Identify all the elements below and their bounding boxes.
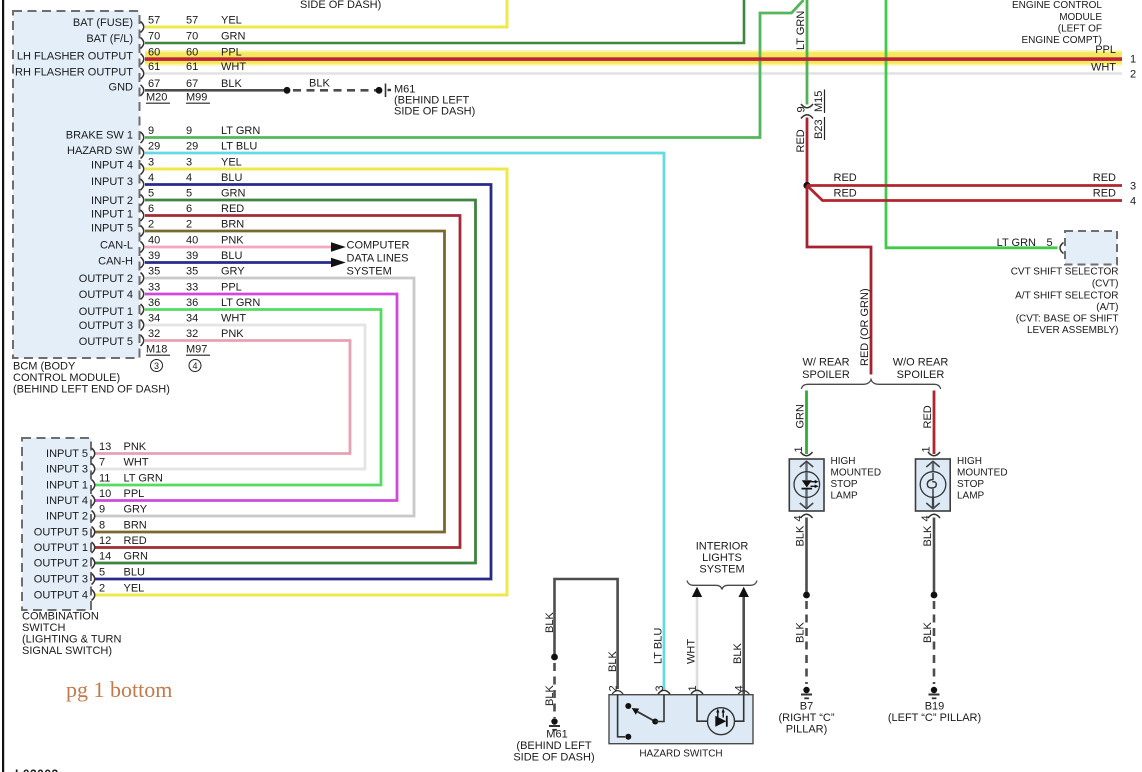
combination switch caption — [22, 611, 121, 658]
svg-text:3: 3 — [1130, 181, 1136, 193]
svg-text:RED: RED — [221, 203, 244, 215]
wire RED B23 vertical — [806, 118, 809, 186]
junction on BLK — [551, 654, 558, 661]
svg-text:SIDE OF DASH): SIDE OF DASH) — [394, 106, 475, 118]
svg-text:(LEFT OF: (LEFT OF — [1058, 24, 1102, 35]
svg-text:ENGINE COMPT): ENGINE COMPT) — [1021, 35, 1102, 46]
svg-text:WHT: WHT — [124, 457, 149, 469]
svg-text:MOUNTED: MOUNTED — [957, 468, 1008, 479]
combination switch pin name labels — [34, 448, 88, 602]
svg-text:4: 4 — [192, 361, 197, 371]
svg-text:RED: RED — [834, 172, 857, 184]
svg-text:BAT (F/L): BAT (F/L) — [86, 33, 133, 45]
svg-text:SIDE OF DASH): SIDE OF DASH) — [513, 752, 594, 764]
svg-text:36: 36 — [186, 297, 198, 309]
hazard internal pin2 stub — [618, 695, 625, 737]
hazard internal switch arm — [638, 712, 656, 722]
svg-text:CVT SHIFT SELECTOR: CVT SHIFT SELECTOR — [1011, 267, 1119, 278]
svg-text:BLK: BLK — [544, 685, 556, 706]
BCM pin arcs — [141, 22, 144, 347]
svg-text:(BEHIND LEFT: (BEHIND LEFT — [516, 740, 591, 752]
wire PPL pin 60 highlighted band (LH flasher output) — [145, 50, 1122, 65]
svg-text:LT GRN: LT GRN — [124, 473, 163, 485]
svg-text:9: 9 — [186, 125, 192, 137]
combination switch wire number and colour labels — [99, 441, 163, 595]
svg-text:BLK: BLK — [732, 643, 744, 664]
svg-text:LT BLU: LT BLU — [653, 628, 665, 664]
wire WHT hazard pin 1 to interior lights — [696, 596, 699, 694]
BCM wire number and colour labels — [148, 15, 260, 341]
svg-text:2: 2 — [1130, 69, 1136, 81]
COMBINATION SWITCH connector box — [22, 438, 91, 610]
svg-text:B19: B19 — [925, 701, 945, 713]
node junction RED — [803, 182, 810, 189]
svg-text:CAN-L: CAN-L — [100, 240, 133, 252]
HAZARD SWITCH box — [609, 695, 753, 744]
svg-text:RED: RED — [922, 405, 934, 428]
wire RED to ECM pin 4 — [807, 186, 1122, 201]
hazard internal contact dot lower — [625, 734, 631, 740]
high mounted stop lamp (bulb) box — [916, 459, 951, 511]
svg-text:6: 6 — [186, 203, 192, 215]
BCM caption — [13, 361, 170, 396]
lamp U1 LED emission arrows — [811, 482, 816, 487]
wire BLK GND dashed — [293, 89, 379, 92]
svg-text:BLK: BLK — [544, 612, 556, 633]
lamp U2 arrow bottom — [926, 503, 939, 509]
lamp U1 arrow top — [800, 461, 813, 467]
svg-text:STOP: STOP — [957, 479, 984, 490]
svg-text:INPUT 1: INPUT 1 — [91, 209, 133, 221]
svg-text:M97: M97 — [186, 344, 207, 356]
svg-text:LEVER ASSEMBLY): LEVER ASSEMBLY) — [1027, 325, 1119, 336]
svg-text:COMPUTER: COMPUTER — [347, 240, 410, 252]
svg-text:(RIGHT “C”: (RIGHT “C” — [778, 712, 834, 724]
svg-text:SWITCH: SWITCH — [22, 622, 65, 634]
svg-text:RED: RED — [795, 129, 807, 152]
svg-text:40: 40 — [148, 235, 160, 247]
engine control module caption — [1012, 0, 1102, 46]
svg-text:40: 40 — [186, 235, 198, 247]
svg-text:8: 8 — [99, 520, 105, 532]
svg-text:M18: M18 — [146, 344, 167, 356]
wire LT GRN pin 9 (brake sw 1) — [145, 0, 804, 138]
splice M61 caption (bottom) — [513, 729, 594, 764]
svg-text:5: 5 — [186, 188, 192, 200]
svg-text:GRY: GRY — [124, 504, 148, 516]
hazard LED triangle — [715, 716, 726, 727]
svg-text:33: 33 — [148, 282, 160, 294]
svg-text:OUTPUT 3: OUTPUT 3 — [34, 574, 88, 586]
svg-text:MOUNTED: MOUNTED — [831, 468, 882, 479]
high mounted stop lamp (LED) box — [789, 459, 824, 511]
wire WHT pin 34 / pin 7 — [94, 325, 365, 469]
arrow to computer data lines (CAN-H) — [331, 258, 346, 268]
arrow interior lights (BLK) — [739, 587, 749, 597]
lamp U2 caption — [957, 456, 1008, 502]
svg-text:YEL: YEL — [221, 157, 242, 169]
svg-text:CONTROL MODULE): CONTROL MODULE) — [13, 372, 120, 384]
svg-text:INPUT 3: INPUT 3 — [91, 176, 133, 188]
connector arc CVT pin 5 — [1060, 243, 1064, 254]
svg-text:BLK: BLK — [309, 78, 330, 90]
lamp U1 LED bar — [802, 488, 813, 490]
svg-text:(LIGHTING & TURN: (LIGHTING & TURN — [22, 634, 121, 646]
svg-text:HAZARD SW: HAZARD SW — [67, 145, 134, 157]
svg-text:GND: GND — [109, 81, 134, 93]
svg-text:3: 3 — [654, 685, 666, 691]
computer data lines system caption — [347, 240, 410, 278]
svg-text:LH FLASHER OUTPUT: LH FLASHER OUTPUT — [17, 51, 133, 63]
arrow interior lights (WHT) — [692, 587, 702, 597]
hazard switch pin 1 connector arc — [691, 690, 703, 694]
wire WHT pin 61 (RH flasher output) — [145, 72, 1122, 75]
wire PNK pin 40 (CAN-L) — [145, 246, 332, 249]
junction at M61 — [376, 87, 383, 94]
wire BLU pin 39 (CAN-H) — [145, 261, 332, 264]
brace interior lights system — [687, 581, 757, 590]
svg-text:SYSTEM: SYSTEM — [699, 564, 744, 576]
svg-text:OUTPUT 1: OUTPUT 1 — [79, 306, 133, 318]
brace split W/ and W/O rear spoiler — [801, 380, 940, 390]
wire RED to ECM pin 3 — [807, 184, 1122, 187]
svg-text:GRN: GRN — [221, 31, 246, 43]
svg-text:36: 36 — [148, 297, 160, 309]
svg-text:RED: RED — [834, 188, 857, 200]
svg-text:60: 60 — [148, 47, 160, 59]
hazard LED cathode bar — [726, 716, 728, 727]
svg-text:HIGH: HIGH — [957, 456, 982, 467]
svg-text:29: 29 — [186, 141, 198, 153]
junction on GND wire — [284, 87, 291, 94]
connector labels M20 M99 — [146, 92, 207, 104]
svg-text:RED (OR GRN): RED (OR GRN) — [859, 288, 871, 366]
svg-text:BRAKE SW 1: BRAKE SW 1 — [66, 130, 133, 142]
svg-text:9: 9 — [796, 106, 808, 112]
wire BLK dashed to B19 — [933, 601, 936, 684]
wire BLK dashed to ground M61 — [553, 663, 556, 718]
wire GRN pin 70 (BAT F/L) — [145, 0, 744, 43]
svg-text:LAMP: LAMP — [957, 491, 985, 502]
svg-text:2: 2 — [608, 685, 620, 691]
svg-text:34: 34 — [148, 313, 160, 325]
svg-text:INPUT 5: INPUT 5 — [46, 448, 88, 460]
svg-text:OUTPUT 5: OUTPUT 5 — [79, 336, 133, 348]
circled note 3 — [151, 360, 163, 372]
svg-text:OUTPUT 5: OUTPUT 5 — [34, 527, 88, 539]
svg-text:BLK: BLK — [922, 622, 934, 643]
svg-text:SPOILER: SPOILER — [802, 369, 850, 381]
wire GRN pin 5 / pin 14 — [94, 200, 476, 563]
svg-text:BLK: BLK — [221, 78, 242, 90]
svg-text:9: 9 — [148, 125, 154, 137]
lamp U1 internal vertical — [805, 461, 807, 509]
lamp U2 arrow top — [926, 461, 939, 467]
junction below left lamp — [803, 592, 810, 599]
svg-text:COMBINATION: COMBINATION — [22, 611, 99, 623]
svg-text:LT GRN: LT GRN — [795, 11, 807, 50]
connector M61 terminal mark — [385, 84, 387, 98]
wire RED w/o rear spoiler — [933, 391, 936, 455]
svg-text:1: 1 — [1130, 54, 1136, 66]
svg-text:SIDE OF DASH): SIDE OF DASH) — [300, 0, 381, 11]
BCM (Body Control Module) connector box — [13, 11, 140, 358]
svg-text:OUTPUT 4: OUTPUT 4 — [79, 289, 133, 301]
svg-text:L02002: L02002 — [15, 767, 59, 772]
svg-text:33: 33 — [186, 282, 198, 294]
wire YEL pin 57 (BAT FUSE) — [145, 0, 507, 27]
svg-text:1: 1 — [921, 446, 933, 452]
wire BLK below right lamp — [933, 518, 936, 596]
circled note 4 — [189, 360, 201, 372]
svg-text:STOP: STOP — [831, 479, 858, 490]
wire BLK hazard pin 2 loop — [555, 579, 618, 689]
svg-text:PPL: PPL — [124, 488, 145, 500]
svg-text:GRN: GRN — [124, 551, 149, 563]
svg-text:M20: M20 — [146, 92, 167, 104]
svg-text:OUTPUT 2: OUTPUT 2 — [34, 558, 88, 570]
svg-text:OUTPUT 4: OUTPUT 4 — [34, 590, 88, 602]
switch arm arrowhead — [632, 708, 640, 715]
BCM pin name labels — [15, 17, 134, 348]
svg-text:4: 4 — [793, 515, 805, 521]
svg-text:M99: M99 — [186, 92, 207, 104]
ground M61 — [549, 718, 560, 730]
svg-text:5: 5 — [1047, 237, 1053, 249]
svg-text:35: 35 — [148, 266, 160, 278]
svg-text:INPUT 3: INPUT 3 — [46, 464, 88, 476]
lamp U1 internal vertical through circle — [805, 472, 807, 497]
svg-text:61: 61 — [186, 61, 198, 73]
wire RED (OR GRN) down to spoiler split — [807, 186, 871, 375]
svg-text:57: 57 — [148, 15, 160, 27]
svg-text:PNK: PNK — [221, 235, 244, 247]
connector B23 male half — [801, 115, 813, 119]
wire BLK dashed to B7 — [805, 601, 808, 684]
svg-text:4: 4 — [734, 685, 746, 691]
svg-text:57: 57 — [186, 15, 198, 27]
svg-text:5: 5 — [99, 567, 105, 579]
wire GRN w/ rear spoiler — [805, 391, 808, 455]
svg-text:GRN: GRN — [221, 188, 246, 200]
svg-text:GRN: GRN — [795, 404, 807, 429]
wire LT GRN from top to connector M15 pin 9 — [806, 0, 809, 105]
svg-text:OUTPUT 3: OUTPUT 3 — [79, 320, 133, 332]
svg-text:12: 12 — [99, 535, 111, 547]
svg-text:4: 4 — [148, 172, 154, 184]
svg-text:INPUT 2: INPUT 2 — [46, 511, 88, 523]
svg-text:32: 32 — [186, 328, 198, 340]
svg-text:OUTPUT 2: OUTPUT 2 — [79, 273, 133, 285]
page border line left — [2, 0, 4, 772]
svg-text:INPUT 4: INPUT 4 — [46, 495, 88, 507]
CVT SHIFT SELECTOR connector box — [1065, 231, 1117, 265]
svg-text:CAN-H: CAN-H — [98, 256, 133, 268]
svg-text:70: 70 — [148, 31, 160, 43]
svg-text:2: 2 — [99, 583, 105, 595]
hazard switch pin 4 connector arc — [738, 691, 749, 694]
svg-text:RED: RED — [1093, 172, 1116, 184]
svg-text:(CVT): (CVT) — [1092, 279, 1119, 290]
hazard internal pin1 stub to LED — [697, 695, 708, 721]
hazard switch pin 2 connector arc — [612, 691, 623, 694]
wire BLU pin 4 / pin 5 — [94, 185, 491, 580]
svg-text:60: 60 — [186, 47, 198, 59]
svg-text:70: 70 — [186, 31, 198, 43]
svg-text:SIGNAL SWITCH): SIGNAL SWITCH) — [22, 645, 112, 657]
svg-text:B23: B23 — [813, 119, 825, 139]
svg-text:6: 6 — [148, 203, 154, 215]
svg-text:LT BLU: LT BLU — [221, 141, 257, 153]
wire LT GRN long vertical to CVT shift selector — [886, 0, 1058, 248]
svg-text:(BEHIND LEFT END OF DASH): (BEHIND LEFT END OF DASH) — [13, 384, 170, 396]
svg-text:39: 39 — [186, 250, 198, 262]
hazard internal pin3 stub — [655, 695, 664, 722]
svg-text:PILLAR): PILLAR) — [786, 724, 828, 736]
arrow to computer data lines (CAN-L) — [331, 242, 346, 252]
svg-text:BLU: BLU — [124, 567, 145, 579]
svg-text:pg 1 bottom: pg 1 bottom — [66, 677, 172, 702]
svg-text:PPL: PPL — [221, 282, 242, 294]
svg-text:BLU: BLU — [221, 250, 242, 262]
wire BLK below left lamp — [805, 518, 808, 596]
svg-text:2: 2 — [186, 219, 192, 231]
svg-text:M61: M61 — [546, 729, 567, 741]
wire BRN pin 2 / pin 8 — [94, 231, 445, 532]
lamp U1 arrow bottom — [800, 503, 813, 509]
svg-text:61: 61 — [148, 61, 160, 73]
svg-text:B7: B7 — [800, 701, 813, 713]
ground B7 — [801, 687, 812, 699]
svg-text:PNK: PNK — [221, 328, 244, 340]
hazard switch pin 3 connector arc — [658, 690, 670, 694]
lamp U1 caption — [831, 456, 882, 502]
ground B19 caption — [888, 701, 981, 725]
svg-text:YEL: YEL — [221, 15, 242, 27]
svg-text:INPUT 4: INPUT 4 — [91, 160, 133, 172]
svg-text:HIGH: HIGH — [831, 456, 856, 467]
svg-text:11: 11 — [99, 473, 110, 485]
wire LT GRN pin 36 / pin 11 — [94, 310, 381, 486]
wire LT BLU pin 29 (hazard sw) — [145, 153, 664, 689]
svg-text:SYSTEM: SYSTEM — [347, 266, 392, 278]
hazard internal arm pivot dot — [652, 719, 658, 725]
svg-text:WHT: WHT — [221, 313, 246, 325]
lamp U1 pin 4 connector arc — [801, 514, 813, 518]
svg-text:YEL: YEL — [124, 583, 145, 595]
svg-text:BLU: BLU — [221, 172, 242, 184]
svg-text:3: 3 — [148, 157, 154, 169]
svg-text:34: 34 — [186, 313, 198, 325]
svg-text:BCM (BODY: BCM (BODY — [13, 361, 76, 373]
svg-text:RH FLASHER OUTPUT: RH FLASHER OUTPUT — [15, 66, 133, 78]
svg-text:BLK: BLK — [795, 622, 807, 643]
combination switch pin arcs — [92, 448, 95, 601]
svg-text:7: 7 — [99, 457, 105, 469]
svg-text:W/ REAR: W/ REAR — [802, 357, 849, 369]
svg-text:4: 4 — [920, 515, 932, 521]
svg-text:RED: RED — [1093, 188, 1116, 200]
svg-text:4: 4 — [1130, 196, 1136, 208]
CVT shift selector caption — [1011, 267, 1119, 337]
svg-text:1: 1 — [793, 446, 805, 452]
svg-text:INPUT 1: INPUT 1 — [46, 480, 88, 492]
svg-text:A/T SHIFT SELECTOR: A/T SHIFT SELECTOR — [1015, 291, 1118, 302]
wire PNK pin 32 / pin 13 — [94, 341, 350, 454]
connector labels M18 M97 — [146, 344, 207, 356]
lamp U2 bulb circle — [920, 472, 946, 498]
svg-text:WHT: WHT — [1091, 62, 1116, 74]
svg-text:RED: RED — [124, 535, 147, 547]
lamp U2 bulb filament loop — [927, 473, 936, 507]
svg-text:OUTPUT 1: OUTPUT 1 — [34, 542, 88, 554]
wire YEL pin 3 / pin 2 — [94, 169, 507, 595]
svg-text:3: 3 — [186, 157, 192, 169]
svg-text:BLK: BLK — [922, 525, 934, 546]
wire GRY pin 35 / pin 9 — [94, 278, 414, 516]
svg-text:BLK: BLK — [795, 525, 807, 546]
wire PPL pin 60 core — [145, 57, 1122, 61]
svg-text:2: 2 — [148, 219, 154, 231]
svg-text:LT GRN: LT GRN — [221, 125, 260, 137]
hazard LED emission arrows — [718, 712, 723, 718]
junction below right lamp — [931, 592, 938, 599]
svg-text:29: 29 — [148, 141, 160, 153]
svg-text:INPUT 2: INPUT 2 — [91, 195, 133, 207]
svg-text:PPL: PPL — [221, 47, 242, 59]
svg-text:HAZARD SWITCH: HAZARD SWITCH — [639, 749, 722, 760]
hazard LED circle — [708, 708, 735, 735]
svg-text:39: 39 — [148, 250, 160, 262]
svg-text:14: 14 — [99, 551, 111, 563]
svg-text:SPOILER: SPOILER — [897, 369, 945, 381]
svg-text:1: 1 — [687, 685, 699, 691]
svg-text:BAT (FUSE): BAT (FUSE) — [73, 17, 133, 29]
interior lights system caption — [696, 541, 749, 576]
svg-text:GRY: GRY — [221, 266, 245, 278]
svg-text:5: 5 — [148, 188, 154, 200]
svg-text:(LEFT “C” PILLAR): (LEFT “C” PILLAR) — [888, 712, 981, 724]
svg-text:10: 10 — [99, 488, 111, 500]
ground B19 — [929, 687, 940, 699]
svg-text:LT GRN: LT GRN — [997, 237, 1036, 249]
svg-text:INPUT 5: INPUT 5 — [91, 223, 133, 235]
svg-text:WHT: WHT — [221, 61, 246, 73]
wire BLK hazard pin 4 to interior lights — [742, 596, 745, 694]
svg-text:3: 3 — [154, 361, 159, 371]
svg-text:WHT: WHT — [686, 639, 698, 664]
svg-text:PPL: PPL — [1095, 44, 1116, 56]
svg-text:67: 67 — [186, 78, 198, 90]
svg-text:35: 35 — [186, 266, 198, 278]
svg-text:(A/T): (A/T) — [1096, 302, 1118, 313]
splice M61 caption (top) — [394, 84, 475, 118]
wire RED pin 6 / pin 12 — [94, 216, 460, 548]
hazard internal contact dot upper — [625, 703, 631, 709]
svg-text:INTERIOR: INTERIOR — [696, 541, 749, 553]
svg-text:LAMP: LAMP — [831, 491, 859, 502]
svg-text:W/O REAR: W/O REAR — [893, 357, 949, 369]
svg-text:LIGHTS: LIGHTS — [702, 552, 742, 564]
svg-text:9: 9 — [99, 504, 105, 516]
svg-text:BRN: BRN — [124, 520, 147, 532]
svg-text:BLK: BLK — [607, 651, 619, 672]
lamp U1 LED circle — [794, 472, 820, 498]
svg-text:PNK: PNK — [124, 441, 147, 453]
lamp U1 pin 1 connector arc — [801, 452, 813, 456]
wire BLK pin 67 (GND) solid — [145, 89, 287, 92]
lamp U1 LED triangle — [802, 480, 812, 487]
